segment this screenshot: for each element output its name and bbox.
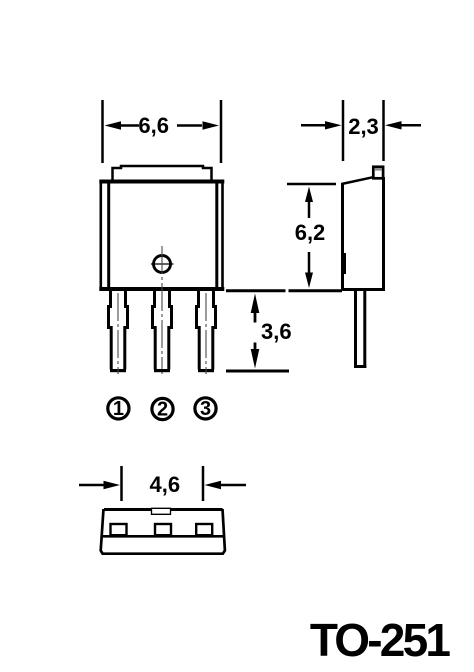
svg-text:4,6: 4,6 (150, 472, 181, 497)
svg-text:6,6: 6,6 (138, 113, 169, 138)
svg-text:3: 3 (200, 398, 211, 420)
svg-text:2: 2 (157, 399, 168, 421)
svg-text:3,6: 3,6 (261, 319, 292, 344)
svg-text:6,2: 6,2 (295, 220, 326, 245)
svg-text:2,3: 2,3 (348, 114, 379, 139)
svg-text:1: 1 (113, 398, 124, 420)
svg-text:TO-251: TO-251 (310, 614, 451, 666)
